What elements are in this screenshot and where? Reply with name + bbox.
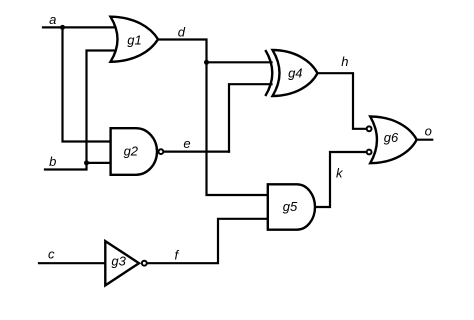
wire a to g2 top input	[63, 27, 112, 141]
or-gate g6 body	[370, 117, 417, 164]
node d junction	[204, 60, 209, 65]
or-gate g6 bottom input bubble	[367, 150, 372, 155]
wire b input lead	[45, 163, 87, 170]
wire f from g3 output to g5 bottom input	[148, 219, 268, 263]
svg-text:g5: g5	[283, 199, 298, 214]
svg-text:g4: g4	[288, 65, 302, 80]
wire h from g4 output to g6 top input	[318, 73, 367, 129]
not-gate g3 bubble	[142, 261, 147, 266]
node a junction	[60, 25, 65, 30]
svg-text:g3: g3	[111, 253, 126, 268]
wire d from g1 output down to g5	[158, 40, 268, 196]
svg-text:g6: g6	[384, 130, 399, 145]
wire a input lead	[43, 26, 116, 28]
wire k from g5 output to g6 bottom input	[315, 152, 366, 207]
svg-text:d: d	[178, 25, 186, 40]
wire o output lead	[417, 139, 433, 141]
wire b to g2 bottom input	[87, 162, 112, 164]
svg-text:h: h	[341, 54, 348, 69]
svg-text:g1: g1	[127, 33, 141, 48]
svg-text:g2: g2	[124, 143, 139, 158]
or-gate g6 top input bubble	[367, 126, 372, 131]
xor-gate g4 extra input arc	[265, 50, 272, 96]
or-gate g1	[111, 17, 159, 62]
node b junction	[84, 160, 89, 165]
and-gate g5	[268, 184, 315, 229]
xor-gate g4 body	[273, 50, 318, 96]
wire e from g2 output	[164, 151, 229, 153]
wire c input lead	[39, 262, 105, 264]
nand-gate g2 bubble	[159, 149, 164, 154]
svg-text:c: c	[48, 247, 55, 262]
wire b to g1 bottom input	[87, 51, 117, 163]
svg-text:o: o	[425, 124, 432, 139]
wire d branch to g4 top input	[207, 61, 272, 63]
wire e up to g4 bottom input	[229, 84, 272, 151]
nand-gate g2 body	[111, 128, 157, 175]
not-gate g3 triangle	[105, 241, 139, 285]
svg-text:b: b	[49, 154, 56, 169]
svg-text:a: a	[49, 12, 56, 27]
svg-text:e: e	[183, 136, 190, 151]
